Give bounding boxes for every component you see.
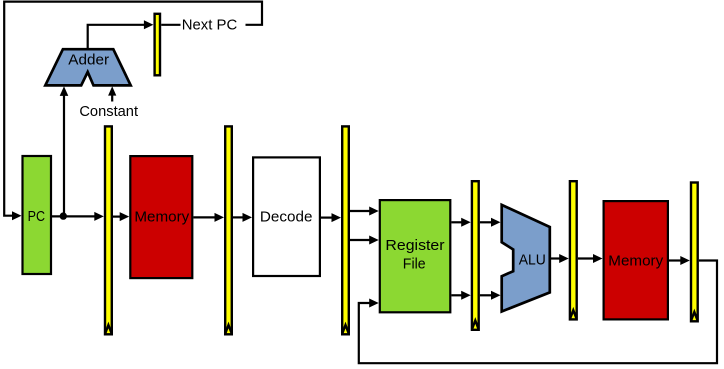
wire: instruction memory to pipeline register 2 — [193, 213, 224, 222]
register PC — [23, 156, 52, 274]
pipeline register: Next PC — [155, 14, 160, 76]
wire: constant input to adder — [108, 86, 116, 101]
instruction memory — [130, 156, 192, 278]
wire: register file output 1 to pipeline register 4 — [451, 218, 470, 227]
decode unit — [253, 157, 320, 276]
svg-text:Memory: Memory — [134, 209, 189, 226]
wire: pipeline register 4 to ALU bottom input — [480, 291, 501, 300]
adder — [45, 49, 130, 85]
wire: PC output to pipeline register 1 — [52, 212, 104, 221]
svg-text:PC: PC — [28, 208, 46, 225]
pipeline register 1 — [105, 126, 112, 334]
svg-text:Register: Register — [385, 237, 444, 254]
wire: ALU output to pipeline register 5 — [550, 254, 569, 263]
svg-text:Adder: Adder — [68, 52, 109, 69]
pipeline register 6 — [691, 183, 698, 322]
wire: pipeline register 5 to data memory — [578, 254, 603, 263]
wire: PC value up to adder left input — [60, 86, 69, 216]
wire: Next PC loop back to PC input — [4, 2, 262, 221]
wire: pipeline register 1 to instruction memory — [113, 212, 129, 221]
wire: pipeline register 4 to ALU top input — [480, 218, 501, 227]
ALU — [502, 205, 550, 312]
svg-text:Memory: Memory — [608, 252, 663, 269]
wire: pipeline register 3 to register file port A — [350, 207, 379, 216]
pipeline register 4 — [472, 181, 479, 330]
pipeline register 3 — [342, 126, 349, 334]
wire: register file output 2 to pipeline register 4 — [451, 291, 470, 300]
wire: Next PC register output to label — [161, 24, 180, 26]
svg-text:Decode: Decode — [260, 208, 313, 225]
wire: pipeline register 2 to decode — [233, 213, 252, 222]
data memory — [604, 201, 668, 319]
svg-text:File: File — [403, 256, 426, 273]
wire: adder output to Next PC register — [88, 20, 154, 48]
svg-text:ALU: ALU — [519, 251, 546, 268]
wire: write-back feedback to register file write port — [359, 261, 717, 364]
pipeline register 2 — [225, 126, 232, 334]
pipeline register 5 — [570, 181, 577, 319]
wire: decode to pipeline register 3 — [321, 213, 341, 222]
svg-text:Next PC: Next PC — [182, 16, 238, 33]
register file — [380, 200, 451, 312]
svg-text:Constant: Constant — [79, 103, 139, 120]
wire: data memory to pipeline register 6 — [669, 256, 690, 265]
wire: pipeline register 3 to register file port B — [350, 236, 379, 245]
junction node: PC output — [60, 212, 67, 219]
